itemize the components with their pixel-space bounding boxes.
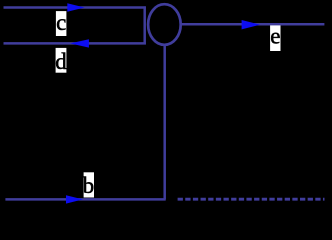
wire b (bottom horizontal) <box>5 198 165 201</box>
wire c-d right connector <box>143 6 146 44</box>
arrow on wire c (points right) <box>67 3 84 11</box>
dashed wire (bottom right) <box>178 198 325 201</box>
wire d (second horizontal) <box>4 42 146 45</box>
label c <box>56 10 67 36</box>
arrow on wire e (points right) <box>242 20 260 29</box>
wire e (right horizontal) <box>181 23 325 26</box>
vertical wire from node down to b <box>163 46 166 200</box>
arrow on wire d (points left) <box>70 39 89 47</box>
svg-text:d: d <box>55 49 67 74</box>
label d <box>55 48 67 74</box>
arrow on wire b (points right) <box>66 195 83 203</box>
node circle <box>148 4 181 45</box>
svg-text:e: e <box>270 23 280 48</box>
wire c (top horizontal) <box>4 6 146 9</box>
svg-text:b: b <box>83 173 95 198</box>
label e <box>270 23 280 51</box>
label b <box>83 172 95 198</box>
svg-text:c: c <box>56 10 66 35</box>
